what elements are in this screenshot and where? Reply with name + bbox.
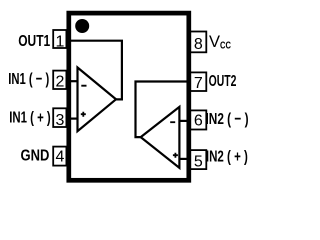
pin-1 index dot: [75, 19, 89, 33]
svg-text:4: 4: [55, 149, 64, 166]
svg-text:IN1 ( + ): IN1 ( + ): [9, 110, 51, 127]
wire pin6 to op-amp B inverting input: [179, 120, 190, 122]
op-amp A plus sign: [81, 112, 86, 117]
op-amp A triangle: [78, 68, 117, 132]
op-amp A minus sign: [81, 85, 86, 87]
svg-text:OUT1: OUT1: [18, 33, 50, 50]
op-amp B plus sign: [173, 153, 178, 158]
wire pin3 to op-amp A non-inverting input: [67, 117, 78, 119]
svg-text:5: 5: [194, 154, 203, 171]
pin 5 box: [190, 150, 206, 169]
wire pin2 to op-amp A inverting input: [67, 80, 78, 82]
svg-text:GND: GND: [21, 147, 50, 164]
pin 1 box: [53, 30, 66, 48]
svg-text:8: 8: [194, 36, 203, 53]
pin 7 box: [190, 72, 206, 91]
wire op-amp B output to pin7: [136, 82, 191, 138]
svg-text:IN1 ( − ): IN1 ( − ): [8, 71, 49, 88]
svg-text:3: 3: [55, 112, 64, 129]
pin 4 box: [53, 147, 66, 166]
svg-text:VCC: VCC: [209, 33, 231, 52]
op-amp B triangle: [141, 107, 180, 168]
svg-text:6: 6: [194, 113, 203, 130]
svg-text:OUT2: OUT2: [209, 73, 237, 90]
pin 8 box: [190, 32, 206, 53]
pin 2 box: [53, 71, 66, 89]
IC body U1 (DIP-8 package outline): [69, 13, 189, 180]
wire pin5 to op-amp B non-inverting input: [179, 158, 190, 160]
wire pin1 to op-amp A output: [67, 41, 122, 100]
op-amp B minus sign: [170, 121, 175, 123]
svg-text:IN2 ( + ): IN2 ( + ): [206, 149, 248, 166]
svg-text:2: 2: [55, 73, 64, 90]
pin 3 box: [53, 108, 66, 127]
svg-text:7: 7: [194, 75, 203, 92]
pin 6 box: [190, 110, 206, 129]
svg-text:IN2 ( − ): IN2 ( − ): [206, 111, 249, 128]
svg-text:1: 1: [55, 33, 64, 50]
